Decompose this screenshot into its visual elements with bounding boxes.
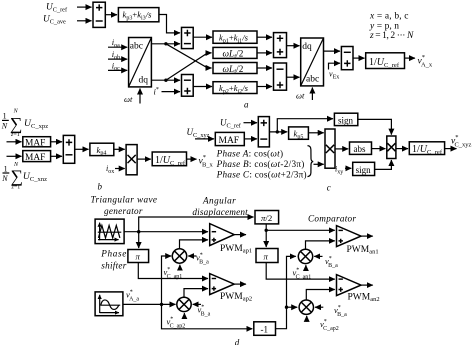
box S10 sign2 bbox=[353, 162, 375, 175]
wire S4 to B2 bbox=[287, 45, 300, 47]
wire C2 output bbox=[234, 283, 246, 285]
svg-text:z=1: z=1 bbox=[11, 185, 21, 191]
wire C3 output bbox=[361, 235, 373, 237]
node text phase shifter bbox=[100, 248, 126, 270]
node junction S8 out bbox=[276, 130, 279, 133]
node i_ox input bbox=[106, 164, 125, 175]
wire P3 to C4 minus bbox=[266, 263, 335, 280]
generator G1 triangular wave bbox=[95, 219, 124, 244]
wire G2 output to X3 bbox=[123, 303, 176, 305]
node wt input B1 bbox=[124, 89, 140, 105]
svg-text:generator: generator bbox=[104, 206, 143, 216]
summer S3 bbox=[182, 75, 194, 97]
multiplier X4 bbox=[299, 300, 313, 314]
svg-text:1: 1 bbox=[3, 112, 7, 121]
wire S2 to box kp1 bbox=[193, 36, 212, 38]
multiplier X3 bbox=[177, 297, 191, 311]
svg-text:Triangular wave: Triangular wave bbox=[91, 195, 158, 205]
wire B2 to S6 minus bbox=[324, 50, 341, 52]
wire branch up to sign1 bbox=[277, 119, 333, 132]
wire B3 output bbox=[405, 57, 416, 59]
svg-text:∑: ∑ bbox=[10, 113, 22, 133]
summer S4 bbox=[274, 33, 287, 58]
node average p-cell voltage label (1/N sum U_C_xpz) bbox=[1, 109, 48, 138]
multiplier M3 bbox=[387, 136, 396, 159]
wire X3 to C2 plus bbox=[184, 289, 208, 298]
svg-text:abc: abc bbox=[306, 75, 319, 85]
wire C1 output bbox=[234, 234, 246, 236]
multiplier M1 bbox=[126, 145, 137, 175]
wire -1 up to X2 bbox=[276, 256, 296, 328]
node i_oa input bbox=[108, 37, 127, 49]
wire wLf2 lower to S5 bbox=[257, 67, 272, 69]
node v*_B_a stub to X1 bbox=[188, 252, 209, 265]
svg-text:disaplacement: disaplacement bbox=[192, 207, 248, 217]
wire U_C_ave to S1 bbox=[77, 20, 92, 22]
svg-text:abc: abc bbox=[130, 42, 143, 52]
svg-text:z=1: z=1 bbox=[10, 132, 20, 138]
node legend x y z bbox=[369, 12, 414, 41]
svg-text:ωt: ωt bbox=[296, 91, 305, 101]
svg-text:d: d bbox=[235, 337, 240, 345]
node junction -1 line bbox=[285, 306, 288, 309]
summer S2 bbox=[182, 27, 194, 48]
node v*_C_ap2 right stub bbox=[307, 316, 339, 332]
wire P2 down to P3 bbox=[265, 224, 267, 247]
box kp3 (kp3+ki3/s) bbox=[118, 8, 158, 22]
summer S6 bbox=[341, 47, 353, 70]
wire wLf2 upper to S4 bbox=[257, 52, 272, 54]
wire B1 d-output to S2 minus bbox=[151, 43, 180, 45]
wire sign2 to M3 bottom bbox=[375, 160, 392, 169]
svg-text:MAF: MAF bbox=[25, 138, 45, 148]
svg-text:dq: dq bbox=[302, 42, 312, 52]
comparator C2 bbox=[210, 274, 235, 295]
box INV -1 bbox=[254, 322, 276, 336]
block B1 abc/dq bbox=[129, 38, 152, 87]
wire S5 to B2 bbox=[287, 76, 300, 78]
box S9 sign1 bbox=[334, 113, 357, 125]
box MAF2 bbox=[23, 151, 51, 163]
svg-text:Comparator: Comparator bbox=[308, 214, 356, 224]
node text angular displacement bbox=[192, 196, 248, 217]
wire B1 q-output to S3 minus bbox=[151, 79, 180, 81]
summer S5 bbox=[274, 63, 287, 90]
svg-text:a: a bbox=[244, 100, 249, 110]
svg-text:Phase A: cos(ωt): Phase A: cos(ωt) bbox=[216, 149, 283, 159]
node i_ob input bbox=[108, 49, 127, 61]
box B6 1/U_C_ref bbox=[409, 142, 444, 156]
svg-text:∑: ∑ bbox=[11, 166, 23, 186]
wire S3 to box kp2 bbox=[193, 86, 212, 88]
wire junction to X4 bbox=[287, 306, 298, 308]
svg-text:Phase C: cos(ωt+2/3π): Phase C: cos(ωt+2/3π) bbox=[216, 169, 307, 179]
svg-text:dq: dq bbox=[139, 76, 149, 86]
node v*_B_a stub to X4 bbox=[315, 305, 347, 318]
box kp2 (kp2+ki2/s) bbox=[213, 82, 257, 95]
node junction q bbox=[164, 79, 167, 82]
box B3 1/U_C_ref bbox=[366, 53, 405, 69]
svg-text:abs: abs bbox=[354, 144, 366, 154]
wire cross-coupling q to wLf2 box2 bbox=[166, 53, 212, 80]
node v*_B_a stub to X2 bbox=[314, 256, 338, 269]
box P3 pi bbox=[256, 249, 278, 263]
node junction d bbox=[164, 42, 167, 45]
svg-text:π: π bbox=[136, 252, 141, 262]
wire cross-coupling d to wLf2 box3 bbox=[166, 44, 212, 68]
svg-text:sign: sign bbox=[356, 165, 372, 175]
wire kp3 to S2 bbox=[159, 15, 180, 33]
wire brace to M2 bbox=[314, 163, 324, 165]
wire junction down to -1 box bbox=[162, 304, 253, 328]
svg-text:Angular: Angular bbox=[202, 196, 236, 206]
box wLf2 upper bbox=[213, 47, 257, 60]
wire M2 to abs bbox=[335, 148, 348, 150]
node wt input B2 bbox=[296, 88, 312, 101]
wire X2 to C3 plus bbox=[306, 241, 335, 249]
wire C4 output bbox=[361, 284, 373, 286]
svg-text:MAF: MAF bbox=[25, 153, 45, 163]
wire MAF1 to S7 bbox=[51, 141, 62, 143]
node v_Ex feed-forward stub bbox=[329, 63, 341, 80]
box kp5 bbox=[289, 127, 309, 141]
wire B4 output bbox=[187, 158, 197, 160]
box MAF1 bbox=[23, 137, 51, 149]
multiplier M2 bbox=[325, 129, 335, 168]
wire MAF2 to S7 bbox=[51, 155, 62, 157]
svg-text:1: 1 bbox=[4, 164, 8, 173]
node junction P2-P3 bbox=[265, 229, 268, 232]
wire B6 output bbox=[445, 148, 457, 150]
wire M3 to B6 bbox=[396, 148, 408, 150]
comparator C1 bbox=[210, 224, 235, 246]
box P1 pi phase shifter bbox=[128, 250, 149, 263]
node junction G1 out bbox=[137, 230, 140, 233]
box B5 MAF bbox=[215, 132, 244, 146]
multiplier X1 bbox=[172, 249, 186, 263]
node junction vAa bbox=[160, 303, 163, 306]
comparator C4 bbox=[337, 275, 362, 296]
svg-text:ωt: ωt bbox=[124, 94, 133, 104]
wire junction to C3 minus bbox=[266, 229, 335, 231]
node v*_C_ap2 stub bbox=[167, 313, 186, 329]
svg-text:sign: sign bbox=[338, 115, 354, 125]
node v*_C_ap1 stub bbox=[164, 265, 183, 280]
node text triangular wave generator bbox=[91, 195, 158, 217]
svg-text:π/2: π/2 bbox=[261, 213, 272, 223]
wire P1 to C2 minus bbox=[138, 263, 208, 279]
box wLf2 lower bbox=[213, 63, 257, 76]
wire kp2 to S5 bbox=[257, 86, 272, 88]
svg-text:b: b bbox=[98, 182, 103, 192]
wire S1 to kp3 bbox=[105, 14, 117, 16]
wire U_C_ref to S1 bbox=[77, 6, 92, 8]
svg-text:shifter: shifter bbox=[101, 260, 126, 270]
svg-text:N: N bbox=[1, 121, 8, 130]
svg-text:Phase: Phase bbox=[100, 248, 126, 258]
svg-text:-1: -1 bbox=[261, 324, 269, 334]
box kp4 bbox=[90, 143, 114, 157]
wire kp1 to S4 bbox=[257, 36, 272, 38]
svg-text:MAF: MAF bbox=[219, 136, 240, 146]
box B4 1/U_C_ref bbox=[152, 152, 186, 167]
node brace bbox=[308, 146, 314, 177]
node phase table text bbox=[216, 149, 307, 180]
wire S7 to kp4 bbox=[75, 148, 89, 150]
wire input to MAF2 bbox=[7, 155, 22, 157]
wire junction up to P2 bbox=[139, 217, 254, 232]
wire M1 to B4 bbox=[137, 158, 151, 160]
svg-text:y = p, n: y = p, n bbox=[369, 21, 399, 31]
node i_oc input bbox=[108, 60, 127, 72]
summer S1 bbox=[93, 2, 105, 27]
wire input to MAF1 bbox=[7, 141, 22, 143]
wire sign1 to M3 top bbox=[358, 119, 392, 134]
node i_xy input bbox=[335, 165, 351, 176]
node i* reference input bbox=[154, 87, 181, 97]
summer S8 bbox=[258, 117, 269, 147]
wire X4 to C4 plus bbox=[306, 290, 335, 301]
multiplier X2 bbox=[298, 249, 312, 263]
node v*_C_an1 stub bbox=[293, 265, 312, 280]
box P2 pi/2 bbox=[255, 211, 279, 224]
wire X1 to C1 plus bbox=[180, 240, 209, 249]
wire kp5 to M2 bbox=[308, 132, 323, 134]
node average n-cell voltage label (1/N sum U_C_xnz) bbox=[1, 162, 47, 191]
svg-text:x = a, b, c: x = a, b, c bbox=[369, 12, 409, 22]
wire junction down to P1 bbox=[138, 232, 140, 248]
box abs bbox=[350, 142, 372, 154]
svg-text:π: π bbox=[264, 252, 269, 262]
svg-text:c: c bbox=[327, 183, 331, 193]
box kp1 (kp1+ki1/s) bbox=[213, 31, 257, 44]
wire kp4 to M1 bbox=[114, 148, 125, 150]
wire G1 output to C1 minus bbox=[124, 231, 208, 233]
summer S7 bbox=[63, 135, 74, 163]
svg-text:Phase B: cos(ωt-2/3π): Phase B: cos(ωt-2/3π) bbox=[216, 159, 305, 169]
wire S6 to B3 bbox=[353, 57, 365, 59]
wire U_C_xyz to MAF bbox=[195, 138, 214, 140]
block B2 dq/abc bbox=[301, 38, 324, 86]
generator G2 sine wave bbox=[95, 292, 123, 316]
svg-text:z = 1, 2 ··· N: z = 1, 2 ··· N bbox=[369, 31, 414, 41]
node v*_B_a stub to X3 bbox=[193, 304, 211, 317]
svg-text:N: N bbox=[1, 174, 8, 183]
wire abs to M3 bbox=[372, 148, 386, 150]
wire junction up to X1 bbox=[162, 256, 172, 304]
wire S8 output to kp5 bbox=[269, 131, 287, 133]
wire U_C_ref to S8 bbox=[244, 122, 258, 124]
wire B5 to S8 minus bbox=[244, 138, 257, 140]
comparator C3 bbox=[337, 226, 362, 247]
